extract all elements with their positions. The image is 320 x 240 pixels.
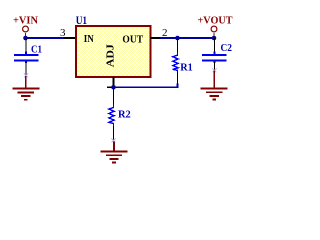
capacitor C1 plates bbox=[14, 52, 38, 64]
pin hotspot mark bbox=[213, 69, 217, 73]
wire net VOUT horizontal bbox=[160, 37, 214, 39]
ground GND2 under R2 bbox=[101, 142, 128, 163]
ground GND1 under C1 bbox=[12, 76, 39, 100]
svg-text:C2: C2 bbox=[221, 43, 233, 54]
svg-text:+VIN: +VIN bbox=[13, 16, 38, 27]
capacitor C2 plates bbox=[202, 52, 226, 64]
resistor R1 zigzag bbox=[173, 52, 178, 72]
junction node R1 top bbox=[175, 36, 180, 41]
capacitor C1 bottom pin bbox=[25, 62, 27, 77]
pin hotspot mark bbox=[112, 139, 116, 143]
svg-text:IN: IN bbox=[84, 34, 94, 45]
resistor R2 bottom pin bbox=[113, 126, 115, 142]
resistor R1 bottom pin bbox=[177, 72, 179, 85]
pin hotspot mark bbox=[24, 74, 28, 78]
capacitor C2 top pin bbox=[214, 38, 216, 53]
pin ADJ vertical stub bbox=[113, 77, 115, 86]
resistor R2 zigzag bbox=[109, 105, 114, 127]
terminal circle +VIN bbox=[23, 26, 29, 32]
junction node VOUT bbox=[212, 36, 217, 41]
svg-text:OUT: OUT bbox=[122, 34, 143, 45]
svg-text:R1: R1 bbox=[180, 62, 193, 73]
ground GND3 under C2 bbox=[201, 71, 228, 100]
capacitor C2 bottom pin bbox=[214, 62, 216, 71]
svg-text:C1: C1 bbox=[31, 44, 42, 55]
stem +VOUT circle to wire bbox=[213, 33, 215, 37]
resistor R1 top pin bbox=[177, 38, 179, 54]
svg-text:U1: U1 bbox=[76, 13, 87, 27]
svg-text:R2: R2 bbox=[118, 110, 131, 121]
pin 3 IN stub bbox=[64, 37, 76, 39]
stem +VIN circle to wire bbox=[25, 33, 27, 37]
svg-text:3: 3 bbox=[60, 28, 66, 39]
terminal circle +VOUT bbox=[211, 26, 217, 32]
wire R1 bottom corner bbox=[114, 84, 178, 88]
wire net VIN horizontal bbox=[25, 37, 66, 39]
pin 2 OUT stub bbox=[150, 37, 162, 39]
resistor R2 top pin bbox=[113, 88, 115, 106]
capacitor C1 top pin bbox=[25, 38, 27, 53]
junction node VIN bbox=[23, 36, 28, 41]
svg-text:ADJ: ADJ bbox=[105, 44, 117, 68]
junction node ADJ bbox=[111, 85, 116, 90]
pin ADJ horizontal stub bbox=[107, 86, 112, 88]
regulator U1 body bbox=[76, 26, 151, 77]
svg-text:+VOUT: +VOUT bbox=[198, 16, 233, 27]
